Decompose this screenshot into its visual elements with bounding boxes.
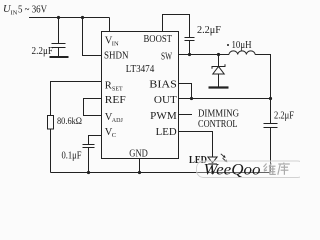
wire: output column to C4 xyxy=(270,99,272,124)
watermark CJK glyphs xyxy=(264,163,290,175)
LED D2 emission arrows xyxy=(221,154,228,163)
capacitor C3 2.2uF boost xyxy=(185,38,195,55)
svg-text:CONTROL: CONTROL xyxy=(198,118,238,130)
wire: BOOST loop to C3 xyxy=(163,15,190,38)
wire: D1 cathode lead xyxy=(218,55,220,67)
svg-text:IN: IN xyxy=(11,10,18,17)
svg-text:SET: SET xyxy=(112,86,123,92)
svg-text:ADJ: ADJ xyxy=(112,118,124,124)
wire: R1 bottom to ground rail xyxy=(50,129,52,173)
inductor L1 10uH xyxy=(229,51,255,55)
svg-text:80.6kΩ: 80.6kΩ xyxy=(57,117,82,127)
svg-text:2.2μF: 2.2μF xyxy=(32,46,54,57)
node: junction OUT column xyxy=(269,97,272,100)
svg-text:BIAS: BIAS xyxy=(149,80,177,91)
node: junction GND to rail xyxy=(138,171,141,174)
wire: L1 to output column xyxy=(255,55,270,99)
wire: REF to VADJ loop xyxy=(84,99,102,116)
watermark WeeQoo box xyxy=(197,161,305,178)
svg-text:IN: IN xyxy=(112,41,119,48)
svg-text:2.2μF: 2.2μF xyxy=(197,25,221,36)
node: junction BIAS-OUT xyxy=(190,97,193,100)
wire: BIAS tie to OUT xyxy=(179,84,192,99)
svg-text:SHDN: SHDN xyxy=(104,51,129,62)
svg-text:5 ~ 36V: 5 ~ 36V xyxy=(18,5,48,16)
wire: VIN top rail xyxy=(29,17,110,19)
wire: VC to C2 xyxy=(89,136,102,145)
svg-text:R: R xyxy=(105,80,112,91)
node: junction rail to C1 xyxy=(57,16,60,19)
wire: LED pin to LED anode xyxy=(179,132,213,158)
LED D2 xyxy=(208,157,217,173)
capacitor C2 0.1uF xyxy=(83,145,95,173)
node: junction SW to C3 xyxy=(188,53,191,56)
svg-text:LT3474: LT3474 xyxy=(126,64,155,75)
node: junction LED to rail xyxy=(211,171,214,174)
svg-text:SW: SW xyxy=(161,52,172,63)
svg-text:REF: REF xyxy=(105,95,126,106)
wire: RSET to resistor R1 xyxy=(51,82,102,116)
svg-text:GND: GND xyxy=(129,148,148,159)
wire: SHDN drop from rail xyxy=(83,18,102,56)
svg-text:C: C xyxy=(112,132,116,139)
label: DIMMING CONTROL xyxy=(198,107,239,130)
wire: C1 top lead xyxy=(58,18,60,44)
wire: GND pin to ground rail xyxy=(139,159,141,173)
wire: OUT line from IC xyxy=(179,98,271,100)
pin label RSET xyxy=(105,80,123,92)
svg-text:PWM: PWM xyxy=(150,111,177,122)
node: junction rail to SHDN xyxy=(81,16,84,19)
resistor R1 80.6k xyxy=(48,116,54,130)
label: input voltage UIN 5~36V xyxy=(3,4,48,17)
pin label VADJ xyxy=(105,112,124,124)
svg-text:2.2μF: 2.2μF xyxy=(274,111,294,122)
op-amp U1 LT3474 body xyxy=(102,32,179,159)
ground: D1 ground bar xyxy=(209,86,229,88)
wire: PWM stub xyxy=(179,114,193,116)
diode D1 schottky catch xyxy=(212,64,225,86)
svg-text:LED: LED xyxy=(156,127,177,138)
capacitor C4 2.2uF output xyxy=(264,124,278,173)
svg-text:BOOST: BOOST xyxy=(144,34,173,45)
capacitor C1 2.2uF input xyxy=(52,44,66,57)
label: L1 value 10uH with phase dot xyxy=(227,40,252,51)
node: junction SW to D1 xyxy=(217,53,220,56)
pin label VC xyxy=(105,127,116,139)
wire: bottom ground rail xyxy=(51,172,271,174)
wire: SW output line xyxy=(179,54,230,56)
svg-text:10μH: 10μH xyxy=(232,40,252,51)
svg-text:0.1μF: 0.1μF xyxy=(62,151,82,162)
svg-text:WeeQoo: WeeQoo xyxy=(204,162,261,179)
pin label VIN xyxy=(105,36,119,48)
ground: input cap ground bar xyxy=(50,56,69,58)
svg-text:OUT: OUT xyxy=(154,95,178,106)
wire: VIN drop to IC top edge xyxy=(109,18,111,32)
node: junction C2 to ground rail xyxy=(87,171,90,174)
